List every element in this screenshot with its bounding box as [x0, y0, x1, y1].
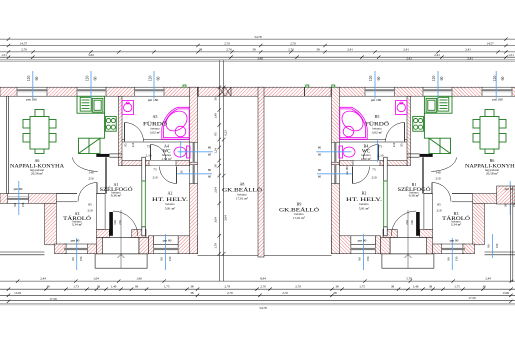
svg-text:60: 60: [156, 77, 160, 81]
svg-text:150: 150: [366, 256, 370, 261]
svg-text:A8: A8: [240, 182, 245, 187]
svg-text:90: 90: [487, 244, 491, 248]
svg-text:210: 210: [405, 220, 409, 225]
svg-text:150: 150: [21, 202, 25, 207]
svg-text:pm 180: pm 180: [346, 166, 349, 175]
svg-text:210: 210: [392, 142, 396, 147]
svg-text:pm 180: pm 180: [26, 98, 37, 102]
svg-text:B9: B9: [297, 202, 302, 207]
svg-text:85: 85: [88, 203, 92, 207]
svg-text:B5: B5: [375, 114, 380, 119]
svg-text:80: 80: [208, 145, 212, 149]
svg-text:A2: A2: [168, 191, 173, 196]
svg-text:60: 60: [318, 152, 322, 156]
svg-text:210: 210: [131, 142, 135, 147]
svg-text:75: 75: [379, 145, 383, 149]
svg-text:210: 210: [435, 177, 440, 181]
svg-text:210: 210: [118, 220, 122, 225]
svg-text:B3: B3: [454, 211, 459, 216]
svg-text:90: 90: [447, 257, 451, 261]
svg-text:60: 60: [35, 77, 39, 81]
svg-text:120: 120: [432, 76, 436, 82]
svg-text:B2: B2: [362, 191, 367, 196]
svg-text:38: 38: [391, 285, 395, 289]
svg-text:90: 90: [13, 203, 17, 207]
svg-text:150: 150: [495, 243, 499, 248]
svg-text:85: 85: [123, 143, 127, 147]
svg-text:90: 90: [160, 257, 164, 261]
svg-text:60: 60: [501, 77, 505, 81]
svg-text:pm 90: pm 90: [450, 239, 459, 243]
svg-text:90: 90: [504, 203, 508, 207]
svg-text:A6: A6: [35, 158, 40, 163]
svg-text:60: 60: [440, 77, 444, 81]
svg-text:38: 38: [46, 285, 50, 289]
svg-text:B6: B6: [490, 158, 495, 163]
svg-text:pm 90: pm 90: [14, 187, 23, 191]
svg-text:38: 38: [333, 291, 337, 295]
svg-text:120: 120: [369, 76, 373, 82]
svg-text:140: 140: [435, 171, 440, 175]
svg-text:38: 38: [252, 48, 256, 52]
svg-text:38: 38: [335, 285, 339, 289]
svg-text:90: 90: [71, 257, 75, 261]
svg-text:60: 60: [208, 152, 212, 156]
svg-text:210: 210: [371, 176, 376, 180]
svg-text:pm 180: pm 180: [148, 98, 159, 102]
svg-text:100: 100: [113, 220, 117, 225]
svg-text:60: 60: [93, 77, 97, 81]
svg-text:100: 100: [410, 220, 414, 225]
svg-text:B4: B4: [364, 144, 369, 149]
svg-text:85: 85: [213, 132, 217, 136]
svg-text:38: 38: [429, 285, 433, 289]
svg-text:38: 38: [190, 285, 194, 289]
svg-text:30: 30: [213, 97, 217, 101]
svg-text:pm 90: pm 90: [71, 239, 80, 243]
svg-text:120: 120: [148, 76, 152, 82]
svg-text:pm 90: pm 90: [163, 239, 172, 243]
svg-text:38: 38: [190, 291, 194, 295]
svg-text:60: 60: [318, 175, 322, 179]
svg-text:210: 210: [152, 176, 157, 180]
svg-text:85: 85: [400, 143, 404, 147]
svg-text:B1: B1: [412, 182, 417, 187]
svg-text:A3: A3: [75, 211, 80, 216]
svg-text:A5: A5: [153, 114, 158, 119]
svg-text:60: 60: [208, 175, 212, 179]
svg-text:75: 75: [147, 145, 151, 149]
svg-text:150: 150: [168, 256, 172, 261]
svg-text:120: 120: [27, 76, 31, 82]
svg-text:38: 38: [199, 48, 203, 52]
svg-text:90: 90: [358, 257, 362, 261]
svg-text:pm 90: pm 90: [358, 239, 367, 243]
svg-text:210: 210: [88, 177, 93, 181]
svg-text:pm 180: pm 180: [492, 98, 503, 102]
svg-text:pm 90: pm 90: [505, 187, 514, 191]
svg-text:75: 75: [153, 168, 157, 172]
svg-text:pm 180: pm 180: [371, 98, 382, 102]
svg-text:120: 120: [85, 76, 89, 82]
svg-text:A1: A1: [114, 182, 119, 187]
svg-text:60: 60: [377, 77, 381, 81]
svg-text:38: 38: [97, 285, 101, 289]
svg-text:38: 38: [482, 285, 486, 289]
svg-text:A4: A4: [164, 144, 169, 149]
svg-text:210: 210: [87, 209, 92, 213]
svg-text:210: 210: [436, 209, 441, 213]
svg-text:150: 150: [455, 256, 459, 261]
svg-text:85: 85: [437, 203, 441, 207]
svg-text:80: 80: [208, 168, 212, 172]
svg-text:140: 140: [88, 171, 93, 175]
svg-text:38: 38: [316, 48, 320, 52]
svg-text:75: 75: [372, 168, 376, 172]
svg-text:38: 38: [135, 285, 139, 289]
svg-text:150: 150: [79, 256, 83, 261]
svg-text:120: 120: [493, 76, 497, 82]
svg-text:80: 80: [318, 145, 322, 149]
svg-text:80: 80: [318, 168, 322, 172]
svg-text:38: 38: [213, 164, 217, 168]
